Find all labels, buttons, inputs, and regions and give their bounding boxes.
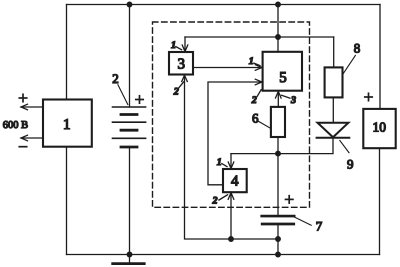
label 8 bbox=[343, 41, 360, 74]
wire: resistor 8 to diode 9 bbox=[332, 97, 334, 122]
svg-text:9: 9 bbox=[347, 156, 354, 171]
wire: block 1 bottom to ground bus bbox=[66, 147, 68, 255]
wire: drop from top bus to control bus bbox=[277, 5, 279, 38]
plus mark of block 1 output bbox=[19, 94, 26, 101]
wire: control bus to resistor 8 bbox=[333, 37, 335, 67]
block 10 bbox=[363, 109, 395, 148]
svg-text:10: 10 bbox=[373, 119, 387, 134]
node: feedback run / block 4 junction bbox=[229, 237, 234, 242]
pin label 3 of block 5 bbox=[282, 95, 297, 106]
wire+arrow: input 1 of block 3 bbox=[182, 37, 188, 52]
block 1 (converter) bbox=[43, 100, 92, 147]
wire+arrow: block 3 output to block 5 input 1 bbox=[193, 65, 262, 71]
wire: top supply bus bbox=[67, 4, 381, 6]
battery 2 (three cells) bbox=[113, 107, 146, 147]
svg-text:1: 1 bbox=[217, 157, 222, 168]
wire: divider node to block 4 input 1 corner bbox=[231, 153, 278, 155]
plus of battery 2 bbox=[136, 96, 143, 103]
plus of block 10 bbox=[365, 93, 372, 100]
pin label 1 of block 3 bbox=[171, 40, 182, 51]
svg-text:600 В: 600 В bbox=[3, 120, 28, 131]
minus mark of block 1 output bbox=[19, 146, 26, 148]
wire: resistor 6 bottom to divider node bbox=[277, 137, 279, 154]
wire: divider node down to battery 7 bbox=[277, 154, 279, 215]
dashed enclosure (stabilizer unit) bbox=[153, 22, 310, 207]
node: top bus / control drop junction bbox=[276, 2, 281, 7]
chassis ground bar bbox=[113, 262, 145, 265]
svg-text:5: 5 bbox=[279, 70, 287, 86]
svg-text:2: 2 bbox=[112, 71, 119, 86]
block 5 bbox=[263, 52, 302, 91]
wire: battery 7 bottom to ground bus bbox=[277, 224, 279, 255]
svg-text:2: 2 bbox=[212, 196, 218, 207]
wire+arrow: input 2 of block 5 (shared with block 4 input) bbox=[208, 79, 262, 185]
node: ground bus tee bbox=[276, 252, 281, 257]
wire+arrow: input 1 of block 4 bbox=[228, 154, 234, 169]
wire: battery 2 top lead bbox=[129, 5, 131, 108]
wire: block 10 bottom to ground bus bbox=[379, 148, 381, 254]
resistor 8 bbox=[325, 67, 343, 97]
node: feedback tee on battery column bbox=[276, 237, 281, 242]
label 2 (battery 2) bbox=[112, 71, 128, 105]
wire+arrow: input 3 of block 5 from resistor 6 bbox=[276, 91, 282, 107]
svg-text:1: 1 bbox=[249, 56, 254, 67]
wire: left drop from top bus to block 1 bbox=[66, 5, 68, 100]
label 7 bbox=[294, 217, 322, 233]
plus of battery 7 bbox=[286, 196, 293, 203]
wire+arrow: input 2 of block 4 bbox=[228, 193, 234, 239]
node: control bus junction bbox=[276, 35, 281, 40]
wire: divider node to diode 9 bottom bbox=[278, 138, 333, 154]
pin label 2 of block 4 bbox=[212, 195, 228, 207]
wire: feedback run from battery column to block 3 input 2 bbox=[185, 76, 279, 239]
pin label 1 of block 5 bbox=[249, 56, 260, 67]
block 4 bbox=[223, 169, 247, 192]
label 9 bbox=[340, 141, 354, 172]
svg-text:3: 3 bbox=[178, 56, 186, 72]
wire: bottom ground bus bbox=[67, 254, 380, 256]
wire: block 5 top feed bbox=[277, 37, 279, 52]
resistor 6 bbox=[271, 107, 285, 137]
node: top bus / battery 2 junction bbox=[127, 2, 132, 7]
arrow: into block 3 bottom bbox=[182, 75, 188, 81]
svg-text:6: 6 bbox=[252, 110, 259, 125]
svg-text:3: 3 bbox=[290, 95, 296, 106]
wire: right bus drop to block 10 bbox=[379, 5, 381, 109]
wire: stub to chassis bar bbox=[129, 255, 131, 263]
svg-text:1: 1 bbox=[63, 117, 71, 133]
svg-text:4: 4 bbox=[231, 174, 239, 190]
block 3 bbox=[169, 52, 193, 75]
wire: control bus y=37 bbox=[185, 36, 334, 38]
pin label 2 of block 5 bbox=[251, 90, 261, 106]
pin label 1 of block 4 bbox=[217, 157, 227, 168]
svg-text:8: 8 bbox=[354, 41, 361, 56]
node: divider junction bbox=[276, 151, 281, 156]
pin label 2 of block 3 bbox=[173, 82, 184, 98]
output arrow minus of block 1 bbox=[21, 135, 43, 141]
svg-text:7: 7 bbox=[316, 218, 323, 233]
wire: battery 2 bottom lead bbox=[129, 147, 131, 255]
svg-text:1: 1 bbox=[171, 40, 176, 51]
output arrow plus of block 1 bbox=[21, 104, 43, 110]
svg-text:2: 2 bbox=[251, 95, 257, 106]
diode 9 bbox=[317, 123, 350, 138]
battery 7 plates bbox=[262, 216, 295, 224]
label 6 bbox=[252, 110, 271, 128]
node: ground bus / battery 2 junction bbox=[127, 252, 132, 257]
